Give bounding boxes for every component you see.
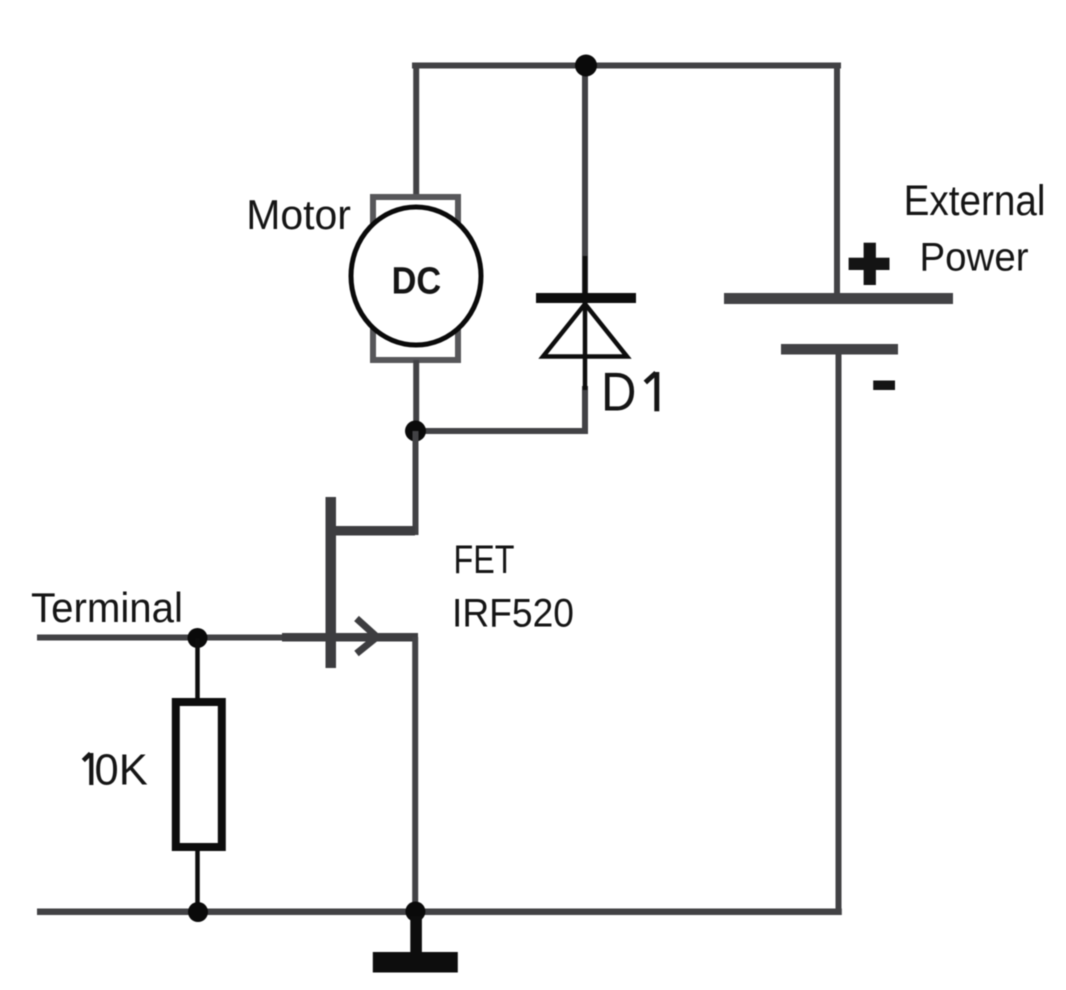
transistor Q1 drain bar bbox=[331, 526, 415, 536]
transistor Q1 gate bar bbox=[326, 497, 337, 668]
junction dot: top node bbox=[575, 55, 597, 77]
wire: right branch vertical battery - to rail bbox=[836, 354, 842, 912]
wire: left branch vertical to motor bbox=[413, 63, 419, 198]
svg-text:DC: DC bbox=[392, 259, 442, 302]
svg-text:IRF520: IRF520 bbox=[452, 591, 574, 636]
diode D1 triangle bbox=[543, 304, 627, 357]
svg-text:Terminal: Terminal bbox=[31, 584, 183, 631]
svg-text:FET: FET bbox=[454, 537, 515, 582]
wire: Q1 source down to rail bbox=[412, 637, 418, 912]
battery BT1 positive plate bbox=[724, 293, 953, 304]
wire: gate node down to resistor bbox=[195, 638, 200, 702]
motor M1 frame bbox=[373, 197, 458, 360]
junction dot: terminal/gate node bbox=[188, 628, 208, 648]
svg-text:0K: 0K bbox=[95, 747, 148, 795]
wire: right branch vertical to battery + bbox=[834, 63, 840, 295]
junction dot: resistor/rail node bbox=[188, 902, 208, 922]
label "+" plus sign bbox=[849, 243, 890, 285]
ground bar bbox=[373, 952, 458, 973]
wire: diode branch vertical top bbox=[582, 63, 588, 296]
junction dot: source/rail node bbox=[405, 902, 425, 922]
transistor Q1 source arrow bbox=[357, 619, 378, 654]
diode D1 vertical line bbox=[583, 256, 588, 390]
transistor Q1 source bar bbox=[282, 633, 418, 642]
wire: terminal lead bbox=[37, 635, 290, 641]
wire: resistor bottom to rail bbox=[195, 847, 200, 912]
wire: diode branch vertical bottom bbox=[582, 386, 588, 431]
wire: node A down to Q1 drain bbox=[413, 431, 419, 535]
svg-text:Power: Power bbox=[920, 235, 1029, 280]
svg-text:D: D bbox=[601, 361, 636, 422]
resistor R1 body bbox=[176, 702, 222, 847]
svg-text:External: External bbox=[904, 176, 1046, 224]
wire: motor bottom to node A bbox=[413, 360, 419, 431]
label "-" minus sign bbox=[873, 381, 895, 391]
wire: top rail bbox=[412, 63, 841, 69]
diode D1 cathode bar bbox=[536, 293, 636, 303]
ground stub bbox=[410, 916, 422, 953]
svg-text:Motor: Motor bbox=[246, 190, 351, 238]
wire: node A to diode branch bottom bbox=[415, 428, 588, 434]
junction dot: node A bbox=[405, 421, 426, 442]
motor M1 circle bbox=[351, 207, 481, 345]
battery BT1 negative plate bbox=[781, 344, 898, 355]
wire: bottom rail bbox=[37, 909, 842, 916]
